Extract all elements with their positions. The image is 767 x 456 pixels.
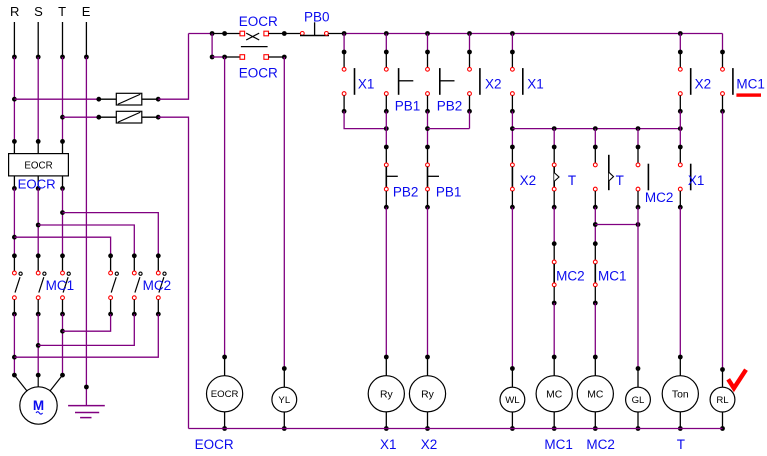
contact T NO delayed (593, 145, 614, 210)
contact X1 NO timer (678, 145, 691, 210)
pushbutton PB1 NO (384, 50, 413, 114)
wire GL column (636, 207, 641, 371)
node S label (34, 4, 43, 19)
svg-text:PB0: PB0 (304, 10, 330, 25)
label EOCR NO (239, 66, 278, 81)
wire (385, 111, 387, 147)
label X2 NC (520, 173, 537, 188)
label T NO (616, 173, 624, 188)
motor M (14, 375, 62, 424)
wire T tap to fuse F2 (63, 115, 102, 120)
label EOCR power (18, 177, 56, 192)
svg-text:R: R (10, 4, 19, 19)
contact X2 NO (467, 50, 480, 114)
svg-text:PB1: PB1 (395, 99, 421, 114)
svg-text:YL: YL (278, 395, 290, 406)
svg-text:X2: X2 (695, 77, 712, 92)
label PB1 NC (436, 185, 462, 200)
wire X2 coil column (425, 207, 430, 359)
coil MC MC2 (577, 357, 613, 431)
label EOCR bottom (195, 437, 234, 452)
wire (553, 207, 555, 244)
label PB0 (304, 10, 330, 25)
wire fuse F1 to control rail (158, 34, 188, 100)
contact MC1 NO (720, 50, 733, 114)
contactor MC1 pole c (60, 253, 70, 316)
label MC2 power (143, 278, 172, 293)
label MC2 NO (645, 190, 674, 205)
wire MC2 pole a crossover (63, 314, 111, 331)
wire rail segment (212, 31, 240, 36)
wire T phase (60, 57, 65, 144)
label T NC (568, 173, 576, 188)
wire MC2 coil column (593, 303, 598, 359)
wire WL column (510, 207, 515, 371)
svg-text:EOCR: EOCR (195, 437, 234, 452)
svg-text:X1: X1 (688, 173, 705, 188)
svg-text:X2: X2 (520, 173, 537, 188)
svg-text:X2: X2 (421, 437, 438, 452)
svg-text:WL: WL (505, 395, 520, 406)
wire (679, 34, 681, 53)
wire R phase (12, 57, 17, 144)
contact X2 NO top (678, 50, 691, 114)
svg-text:PB1: PB1 (436, 185, 462, 200)
label MC1 NO (736, 77, 765, 92)
svg-text:MC1: MC1 (736, 77, 765, 92)
label MC2 interlock (556, 269, 585, 284)
wire RL column (720, 111, 725, 372)
contact MC2 NC interlock (552, 241, 557, 305)
fuse F2 (99, 111, 161, 123)
wire (511, 34, 513, 53)
wire fuse F2 to bottom rail (158, 117, 188, 428)
wire (510, 111, 515, 147)
svg-text:Ry: Ry (421, 389, 435, 400)
wire X1 branch join (344, 111, 389, 131)
wire MC1 coil column (552, 303, 557, 359)
wire R tap to MC2 pole a (14, 237, 110, 256)
wire MC2 pole c crossover (14, 314, 158, 357)
svg-text:MC2: MC2 (143, 278, 172, 293)
contact X1 NO sub (510, 50, 523, 114)
lamp YL (272, 369, 297, 431)
wire rail drop to MC1 contact (722, 34, 724, 53)
contact T NC delayed (552, 145, 559, 210)
contact MC1 NC interlock (593, 241, 598, 305)
svg-text:S: S (34, 4, 43, 19)
contact X2 NC (510, 145, 515, 210)
fuse F1 (99, 93, 161, 105)
wire control top rail (342, 31, 723, 36)
wire rail segment (269, 31, 301, 36)
svg-text:Ry: Ry (380, 389, 394, 400)
svg-text:EOCR: EOCR (239, 14, 278, 29)
wire R below EOCR (12, 188, 17, 255)
svg-text:MC1: MC1 (544, 437, 573, 452)
label X1 sub (527, 77, 544, 92)
svg-text:EOCR: EOCR (211, 389, 239, 400)
coil Ry X2 (409, 357, 445, 431)
wire T below EOCR (60, 188, 65, 255)
lamp WL (500, 369, 525, 431)
label X2 top (695, 77, 712, 92)
svg-text:X1: X1 (527, 77, 544, 92)
label X1 bottom (380, 437, 397, 452)
wire S tap to MC2 pole b (38, 225, 134, 256)
relay EOCR power block (9, 141, 69, 190)
label PB2 (437, 99, 463, 114)
wire W phase to motor (60, 314, 65, 377)
svg-text:RL: RL (716, 395, 729, 406)
wire S below EOCR (36, 188, 41, 255)
svg-text:MC2: MC2 (556, 269, 585, 284)
wire row2 (212, 55, 240, 60)
label X2 bottom (421, 437, 438, 452)
svg-text:EOCR: EOCR (18, 177, 56, 192)
contact EOCR trip NC (240, 31, 269, 46)
wire V phase to motor (36, 314, 41, 377)
pushbutton PB2 NC (384, 145, 398, 210)
label T bottom (677, 437, 685, 452)
wire (553, 129, 555, 147)
coil Ry X1 (368, 357, 404, 431)
svg-text:PB2: PB2 (437, 99, 463, 114)
svg-text:E: E (82, 4, 91, 19)
label X1 contact (358, 77, 375, 92)
wire (637, 129, 639, 147)
svg-text:T: T (58, 4, 66, 19)
svg-text:MC2: MC2 (645, 190, 674, 205)
contactor MC1 pole a (12, 253, 22, 316)
lamp GL (626, 369, 651, 431)
wire rail segment (328, 33, 344, 35)
wire E phase to ground (84, 57, 89, 406)
coil Ton T (662, 357, 698, 431)
label MC2 bottom (586, 437, 615, 452)
node T label (58, 4, 66, 19)
wire T tap to MC2 pole c (63, 213, 159, 256)
marker red checkmark (728, 370, 746, 389)
svg-text:T: T (616, 173, 624, 188)
wire (427, 34, 429, 53)
label PB1 (395, 99, 421, 114)
svg-text:X2: X2 (485, 77, 502, 92)
wire U phase to motor (12, 314, 17, 377)
contactor MC1 pole b (36, 253, 46, 316)
wire R phase top (12, 22, 17, 59)
wire holding jumper (595, 222, 640, 227)
wire (385, 34, 387, 53)
wire X1 coil column (384, 207, 389, 359)
label EOCR trip (239, 14, 278, 29)
pushbutton PB2 NO (425, 50, 454, 114)
label MC1 power (46, 278, 75, 293)
svg-text:M: M (33, 398, 44, 413)
svg-text:EOCR: EOCR (24, 161, 52, 172)
wire EOCR coil column (222, 57, 227, 359)
wire S phase (36, 57, 41, 144)
coil MC MC1 (536, 357, 572, 431)
wire (469, 111, 471, 128)
svg-text:T: T (677, 437, 685, 452)
contactor MC2 pole b (132, 253, 142, 316)
svg-text:MC: MC (546, 389, 563, 400)
wire control top rail left (189, 31, 215, 36)
contactor MC2 pole a (108, 253, 118, 316)
wire (593, 207, 598, 244)
svg-text:MC: MC (587, 389, 604, 400)
label MC1 bottom (544, 437, 573, 452)
wire (469, 34, 471, 53)
wire control bottom rail (189, 428, 723, 430)
svg-text:T: T (568, 173, 576, 188)
wire (594, 129, 596, 147)
coil EOCR (207, 357, 243, 431)
contactor MC2 pole c (156, 253, 166, 316)
svg-text:MC1: MC1 (46, 278, 75, 293)
label X1 timer (688, 173, 705, 188)
svg-text:X1: X1 (358, 77, 375, 92)
svg-text:MC2: MC2 (586, 437, 615, 452)
svg-text:GL: GL (632, 395, 645, 406)
svg-text:MC1: MC1 (598, 269, 627, 284)
ground (68, 406, 105, 418)
pushbutton PB1 NC (425, 145, 439, 210)
wire (679, 111, 681, 147)
label PB2 NC (393, 185, 419, 200)
wire (343, 34, 345, 53)
svg-text:X1: X1 (380, 437, 397, 452)
svg-text:EOCR: EOCR (239, 66, 278, 81)
wire T phase top (60, 22, 65, 59)
marker MC1 red underline (736, 93, 761, 96)
contact X1 NO (342, 50, 355, 114)
node E label (82, 4, 91, 19)
wire E phase top (84, 22, 89, 59)
wire X2 branch join (425, 111, 469, 147)
node R label (10, 4, 19, 19)
svg-text:PB2: PB2 (393, 185, 419, 200)
wire sub rail (512, 126, 682, 131)
lamp RL (710, 370, 735, 431)
wire YL column (282, 57, 287, 371)
wire S phase top (36, 22, 41, 59)
wire R tap to fuse F1 (14, 97, 101, 102)
wire row2 riser (210, 34, 215, 60)
contact EOCR NO (240, 55, 287, 60)
contact MC2 NO holding (636, 145, 649, 210)
pushbutton PB0 NC (300, 22, 329, 35)
label X2 contact (485, 77, 502, 92)
svg-text:Ton: Ton (672, 389, 689, 400)
wire Ton column (678, 207, 683, 359)
wire MC2 pole b crossover (38, 314, 134, 345)
label MC1 interlock (598, 269, 627, 284)
